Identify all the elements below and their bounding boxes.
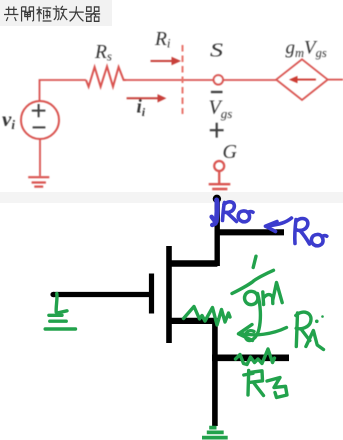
drain riser <box>214 198 219 267</box>
green ground bottom <box>202 428 228 438</box>
blue RD 2 : o <box>311 234 323 245</box>
wire vi bottom <box>39 140 41 177</box>
green Rs : R <box>246 371 250 396</box>
plus minus in vi source <box>32 104 46 127</box>
wire diamond to right edge <box>328 79 343 81</box>
g tail <box>245 294 260 341</box>
svg-text:S: S <box>210 40 223 62</box>
svg-text:ii: ii <box>137 97 146 120</box>
blue down arrow on drain riser <box>216 200 217 222</box>
1/gm : the 1 <box>253 256 256 267</box>
green Ri : R <box>296 313 297 347</box>
lower branch <box>212 354 289 361</box>
char 極 <box>36 7 51 22</box>
svg-text:G: G <box>223 141 238 163</box>
g bowl <box>245 291 258 304</box>
svg-text:Vgs: Vgs <box>209 97 233 122</box>
source horizontal <box>169 318 215 324</box>
G stem <box>218 171 220 183</box>
ground vi <box>28 177 49 186</box>
svg-text:Rs: Rs <box>94 42 112 64</box>
char 閘 <box>22 7 34 22</box>
plus below Vgs <box>210 123 224 138</box>
arrow inside diamond <box>289 76 316 83</box>
char 共 <box>4 7 18 21</box>
wire resistor to diamond <box>126 79 276 81</box>
resistor Rs <box>86 67 126 87</box>
blue RD 2 : R <box>295 220 296 244</box>
char 器 <box>85 7 100 21</box>
svg-text:gmVgs: gmVgs <box>286 37 327 60</box>
char 大 <box>69 6 84 21</box>
green ground at gate <box>54 294 58 313</box>
minus above Vgs <box>211 91 223 93</box>
arrow to left <box>240 328 287 335</box>
drain horizontal <box>169 260 217 267</box>
green i dot <box>315 320 319 324</box>
separator band <box>0 192 343 203</box>
blue RD 1 : o <box>238 211 249 222</box>
title background box <box>0 0 112 26</box>
dependent source diamond gmVgs <box>276 59 328 100</box>
voltage source vi circle <box>21 101 59 139</box>
svg-text:Ri: Ri <box>154 29 171 51</box>
dashed line Ri boundary <box>182 45 184 114</box>
gate wire <box>53 292 152 297</box>
node S circle <box>214 75 223 84</box>
blue arrow 2 <box>267 218 292 226</box>
node G circle <box>214 161 224 171</box>
m <box>261 292 265 305</box>
blue RD 1 : R <box>223 203 225 221</box>
title 共閘極放大器 (drawn glyphs) <box>4 6 100 22</box>
ii arrow <box>127 94 167 102</box>
char 放 <box>53 6 68 20</box>
fraction bar <box>232 270 274 293</box>
channel bar <box>166 246 172 343</box>
node dot top of drain riser <box>213 195 221 203</box>
squiggle on lower branch <box>236 349 275 365</box>
green Rs : s <box>267 378 287 398</box>
source riser <box>212 318 218 426</box>
ground G <box>209 184 231 189</box>
green Ri : i <box>306 331 324 350</box>
wire vi top <box>40 80 87 101</box>
gate plate <box>149 274 154 314</box>
squiggle on source wire <box>184 307 231 326</box>
top rail <box>215 229 285 235</box>
svg-text:vi: vi <box>2 107 15 132</box>
Ri arrow <box>151 57 182 66</box>
